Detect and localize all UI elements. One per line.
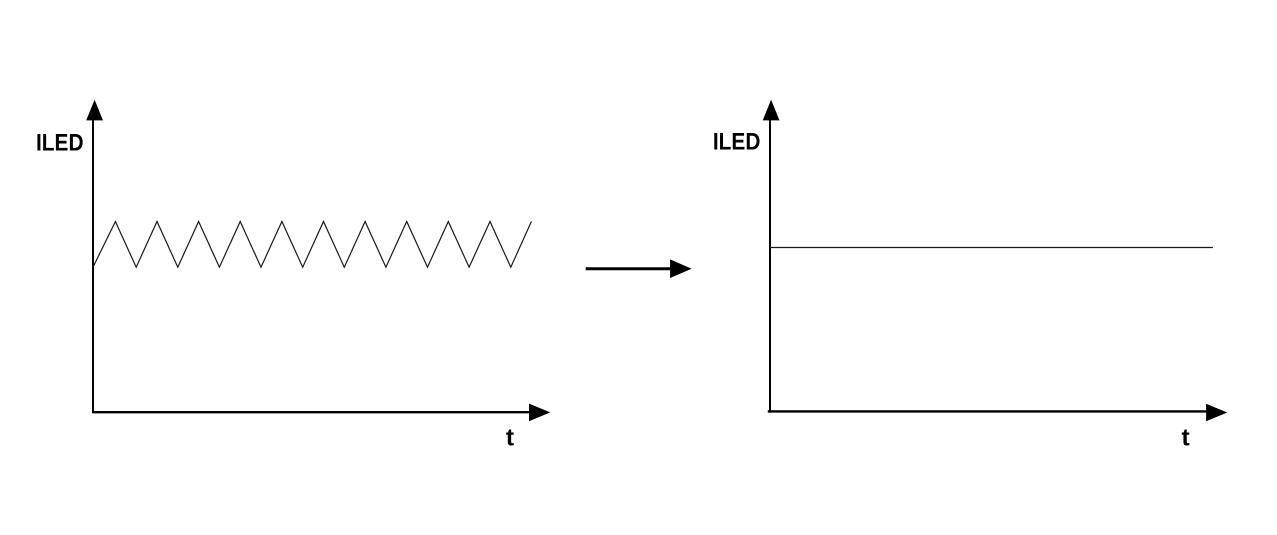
- svg-text:t: t: [1182, 425, 1190, 452]
- svg-text:t: t: [506, 425, 514, 452]
- right graph x-axis arrowhead: [1206, 404, 1227, 422]
- transition arrow shaft: [586, 267, 671, 270]
- left graph y-axis arrowhead: [86, 100, 103, 121]
- right graph x-axis line: [768, 410, 1207, 412]
- transition arrow head: [670, 259, 692, 278]
- right graph y-axis arrowhead: [763, 100, 780, 121]
- right graph y-axis line: [769, 108, 771, 411]
- triangle ripple current waveform: [93, 222, 531, 268]
- left graph x-axis line: [92, 411, 530, 413]
- constant (smoothed) current line: [771, 247, 1213, 249]
- left graph x-axis arrowhead: [529, 404, 550, 422]
- svg-text:ILED: ILED: [36, 130, 84, 157]
- left graph y-axis line: [92, 108, 94, 411]
- svg-text:ILED: ILED: [713, 129, 761, 156]
